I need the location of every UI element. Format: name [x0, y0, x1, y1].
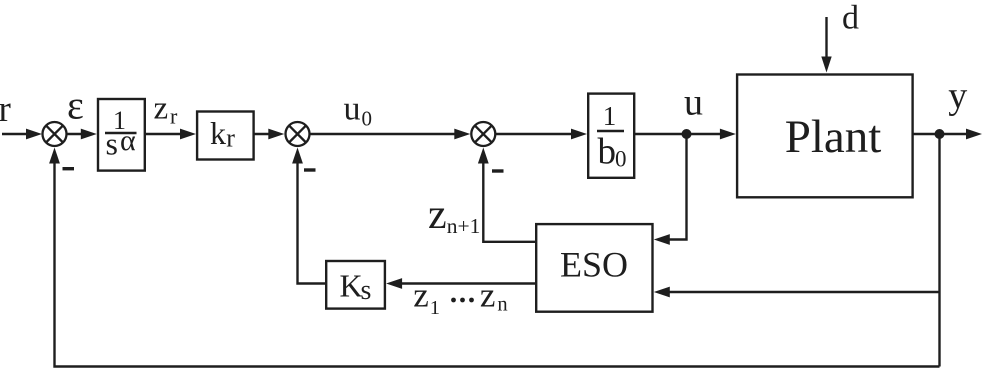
svg-text:α: α — [120, 124, 136, 157]
block ESO — [536, 224, 652, 312]
svg-text:y: y — [948, 75, 967, 117]
arrowhead into Plant — [720, 129, 736, 140]
svg-text:u: u — [684, 82, 703, 124]
svg-text:z: z — [413, 275, 429, 314]
svg-text:r: r — [0, 89, 11, 130]
svg-text:Plant: Plant — [785, 111, 882, 163]
wire block 1/s^alpha to block kr — [145, 133, 184, 135]
arrowhead into block 1/s^alpha — [81, 129, 97, 140]
minus sign at S2 — [304, 168, 316, 171]
block kr — [197, 112, 254, 160]
svg-text:k: k — [210, 115, 226, 151]
svg-text:d: d — [842, 0, 859, 37]
arrowhead into block 1/b0 — [571, 129, 587, 140]
svg-text:z: z — [154, 91, 169, 127]
arrowhead zn+1 into S3 bottom — [478, 148, 489, 164]
arrowhead u into ESO right side — [654, 234, 670, 245]
wire y node down to bottom feedback — [938, 134, 940, 367]
wire u node down and into ESO — [667, 134, 687, 240]
svg-text:z: z — [480, 275, 496, 314]
arrowhead output y — [966, 129, 982, 140]
wire Plant to output y — [913, 133, 969, 135]
summing junction S2 — [286, 122, 310, 146]
svg-text:r: r — [170, 104, 178, 129]
wire block kr to summing junction S2 — [254, 133, 272, 135]
wire Ks output up to S2 — [298, 159, 327, 284]
svg-text:K: K — [340, 268, 363, 304]
wire S1 to block 1/s^alpha — [67, 133, 85, 135]
minus sign at S1 — [63, 167, 75, 170]
node dot u — [682, 129, 692, 139]
wire bottom feedback to S1 — [55, 159, 940, 367]
svg-text:u: u — [344, 91, 361, 128]
wire input r to summing junction S1 — [2, 133, 30, 135]
svg-text:n: n — [497, 293, 507, 315]
arrowhead y into ESO right side — [654, 287, 670, 298]
svg-text:0: 0 — [362, 107, 373, 131]
svg-text:r: r — [226, 123, 235, 152]
node dot y — [935, 129, 945, 139]
arrowhead into S2 — [268, 129, 284, 140]
wire disturbance d into Plant — [825, 17, 827, 60]
block Plant — [737, 75, 913, 198]
arrowhead into S3 — [454, 129, 470, 140]
wire y feedback into ESO — [667, 291, 940, 293]
svg-text:ε: ε — [67, 83, 84, 128]
arrowhead z1..zn into Ks — [386, 278, 402, 289]
wire S2 to summing junction S3 (u0) — [310, 133, 458, 135]
arrowhead Ks output into S2 bottom — [292, 148, 303, 164]
svg-text:n+1: n+1 — [447, 214, 481, 238]
svg-text:1: 1 — [603, 101, 617, 131]
svg-text:0: 0 — [615, 147, 627, 172]
minus sign at S3 — [492, 169, 504, 172]
wire ESO zn+1 output up to S3 — [483, 159, 536, 242]
summing junction S3 — [471, 122, 495, 146]
svg-text:b: b — [598, 132, 617, 173]
arrowhead into block kr — [180, 129, 196, 140]
block 1/b0 — [588, 94, 634, 178]
summing junction S1 — [43, 122, 67, 146]
arrowhead feedback into S1 bottom — [49, 148, 60, 164]
svg-text:s: s — [106, 126, 118, 162]
block Ks — [326, 261, 385, 309]
svg-text:z: z — [428, 192, 447, 238]
wire ESO z1..zn output to Ks — [399, 282, 536, 284]
arrowhead into S1 — [26, 129, 42, 140]
block 1/s^alpha — [98, 99, 145, 171]
svg-text:ESO: ESO — [560, 245, 628, 285]
svg-text:1: 1 — [430, 297, 440, 319]
svg-text:s: s — [361, 275, 372, 306]
arrowhead of d into Plant top — [821, 57, 831, 73]
wire S3 to block 1/b0 — [496, 133, 576, 135]
wire block 1/b0 to Plant (u) — [634, 133, 724, 135]
